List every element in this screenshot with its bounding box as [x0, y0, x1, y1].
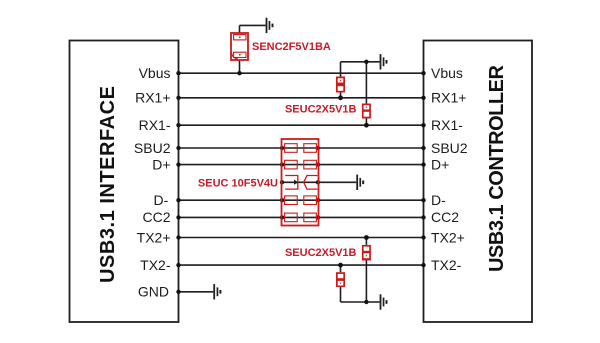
svg-text:Vbus: Vbus — [431, 65, 463, 81]
svg-text:TX2-: TX2- — [431, 257, 462, 273]
svg-text:Vbus: Vbus — [139, 65, 171, 81]
svg-text:RX1+: RX1+ — [431, 90, 466, 106]
svg-text:RX1+: RX1+ — [135, 90, 170, 106]
svg-text:USB3.1 CONTROLLER: USB3.1 CONTROLLER — [486, 64, 508, 272]
svg-text:SEUC2X5V1B: SEUC2X5V1B — [285, 247, 357, 259]
svg-text:SBU2: SBU2 — [431, 140, 468, 156]
svg-text:SEUC 10F5V4U: SEUC 10F5V4U — [198, 178, 278, 190]
svg-text:CC2: CC2 — [142, 209, 170, 225]
svg-text:TX2+: TX2+ — [137, 229, 171, 245]
svg-text:TX2+: TX2+ — [431, 229, 465, 245]
svg-text:SBU2: SBU2 — [134, 140, 171, 156]
svg-text:D-: D- — [154, 192, 169, 208]
svg-text:CC2: CC2 — [431, 209, 459, 225]
svg-text:GND: GND — [138, 284, 169, 300]
svg-text:TX2-: TX2- — [140, 257, 171, 273]
svg-text:SENC2F5V1BA: SENC2F5V1BA — [252, 41, 331, 53]
svg-text:USB3.1 INTERFACE: USB3.1 INTERFACE — [97, 86, 119, 283]
svg-text:RX1-: RX1- — [431, 117, 463, 133]
svg-text:D+: D+ — [152, 156, 170, 172]
svg-text:D-: D- — [431, 192, 446, 208]
svg-text:D+: D+ — [431, 156, 449, 172]
svg-text:SEUC2X5V1B: SEUC2X5V1B — [285, 104, 357, 116]
svg-text:RX1-: RX1- — [139, 117, 171, 133]
